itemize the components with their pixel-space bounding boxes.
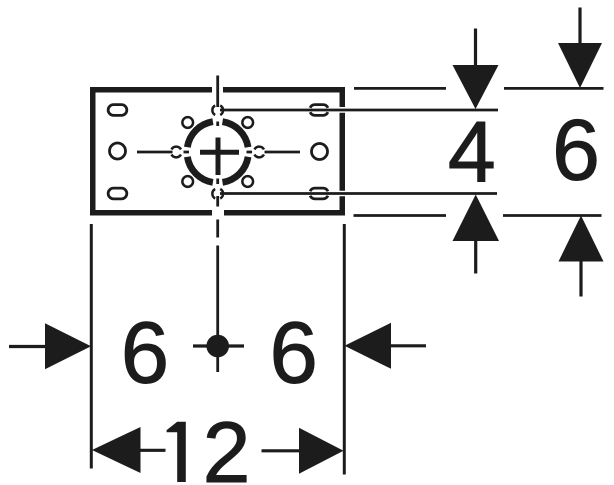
slot bottom-left [108,188,127,199]
dim 6 right top arrow [578,8,581,44]
svg-text:6: 6 [270,305,318,402]
slot bottom-right (split by callout line) [310,188,328,199]
bolt hole SE [242,176,253,187]
extension line plate bottom [354,214,602,217]
dim 12 line right [262,449,300,452]
slot top-right (split by callout line) [310,105,328,116]
bolt hole E (split) [254,147,263,158]
bolt hole NW [182,117,193,128]
slot top-left [108,105,127,116]
svg-text:6: 6 [552,103,600,199]
bolt hole W (split) [171,147,180,158]
hole circle left [110,143,126,159]
svg-text:4: 4 [448,105,496,201]
crosshair center [200,138,239,176]
extension line plate top [354,87,604,90]
center marker dot [206,335,229,358]
bolt hole NE [242,117,253,128]
dim 12 line left [141,449,166,452]
horizontal centerline [137,151,300,154]
dim 12 left arrow [92,427,141,473]
big central circle [187,122,248,183]
dim 4 top arrow [474,29,477,66]
extension line bottom right [343,224,346,475]
dim 12 right arrow [299,428,344,474]
dim 6-6 left arrow [9,345,45,348]
svg-text:6: 6 [121,305,169,402]
plate outline [90,87,345,216]
dim 4 bottom arrow [453,195,500,242]
callout line upper (top hole row) [220,109,498,112]
hole circle right [312,144,328,160]
dim 12 label digit 1 [167,422,186,482]
bolt hole S (split) [212,189,223,198]
extension line bottom left [90,224,93,469]
dim 6-6 right arrow [345,323,392,369]
vertical centerline [216,76,219,373]
bolt hole N (split) [212,106,223,115]
dim 6 right bottom arrow [559,216,604,262]
callout line lower (bottom hole row) [220,192,497,195]
svg-text:2: 2 [203,405,251,485]
bolt hole SW [182,176,193,187]
